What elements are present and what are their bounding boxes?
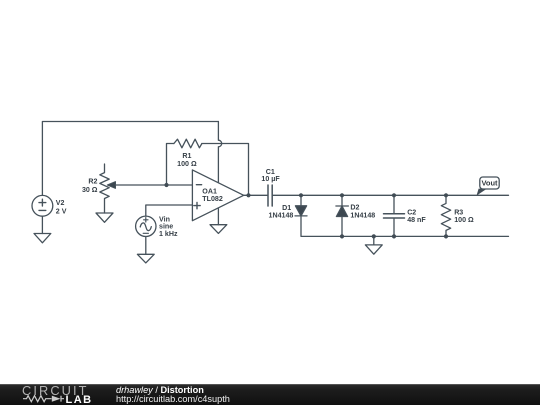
svg-text:2 V: 2 V (56, 208, 67, 216)
svg-text:100 Ω: 100 Ω (177, 160, 197, 168)
svg-text:48 nF: 48 nF (407, 216, 426, 224)
svg-text:Vout: Vout (481, 179, 498, 188)
svg-text:100 Ω: 100 Ω (454, 216, 474, 224)
svg-text:R1: R1 (182, 152, 191, 160)
svg-text:http://circuitlab.com/c4supth: http://circuitlab.com/c4supth (116, 394, 230, 404)
svg-text:1N4148: 1N4148 (350, 211, 375, 219)
svg-text:30 Ω: 30 Ω (82, 186, 98, 194)
svg-text:TL082: TL082 (202, 195, 223, 203)
svg-text:R2: R2 (88, 177, 97, 185)
svg-text:LAB: LAB (66, 394, 93, 405)
svg-text:1N4148: 1N4148 (269, 211, 294, 219)
svg-text:V2: V2 (56, 199, 65, 207)
svg-text:10 µF: 10 µF (261, 175, 280, 183)
svg-text:1 kHz: 1 kHz (159, 230, 178, 238)
svg-text:D2: D2 (350, 204, 359, 212)
